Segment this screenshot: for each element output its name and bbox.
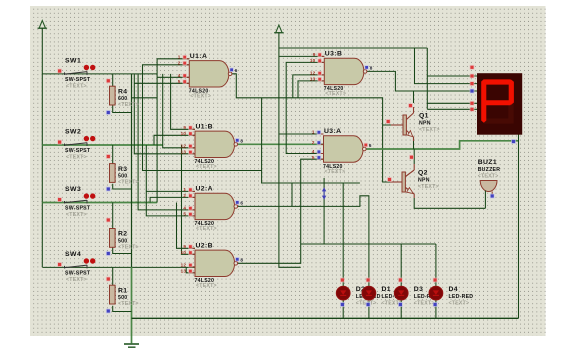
- U2:B pin 10: [189, 253, 195, 255]
- LED D3 (LED-RED): [394, 286, 408, 300]
- svg-text:SW-SPST: SW-SPST: [65, 77, 91, 83]
- wire: fan x=181.5 SW2 to U2:B pin10: [182, 145, 196, 254]
- wire: fan x=186.2 SW4 to U2:B pin13: [186, 267, 195, 272]
- svg-text:<TEXT>: <TEXT>: [325, 91, 346, 97]
- U1:B pin 9: [189, 128, 195, 130]
- wire: fan x=134.3 SW1 to U1:B pin13: [134, 74, 195, 154]
- svg-text:6: 6: [369, 143, 372, 148]
- svg-text:U3:B: U3:B: [325, 50, 342, 57]
- 4-input NAND gate U2:B (74LS20): [195, 250, 235, 276]
- origin marker (blue double arrow): [322, 187, 326, 200]
- U1:A output pin 6: [229, 68, 233, 72]
- wire: Q1 base tap: [383, 124, 401, 126]
- wire: Q2 emitter to buzzer: [414, 198, 485, 208]
- wire: fan x=176.5 SW3 to U2:B pin9: [177, 203, 196, 249]
- resistor R4: [110, 86, 116, 105]
- wire: rail2 top branch to 7seg column: [279, 47, 427, 49]
- 7seg input pin markers: [470, 65, 475, 70]
- svg-text:5: 5: [178, 79, 181, 84]
- resistor R3: [110, 164, 116, 183]
- wire: 7seg common column down to bus: [518, 135, 520, 319]
- wire: U2:A output to LED D1 with jog: [238, 196, 369, 318]
- svg-text:<TEXT>: <TEXT>: [118, 301, 139, 307]
- wire: buzzer left pin: [484, 191, 486, 209]
- wire: SW3 row to R2 and R2 to ground rail: [112, 203, 114, 229]
- svg-text:<TEXT>: <TEXT>: [419, 127, 440, 133]
- wire: row y=244 feeding LED D3 and LED D4: [301, 243, 436, 245]
- U2:A pin 1: [189, 190, 195, 192]
- svg-text:R4: R4: [118, 88, 128, 95]
- U1:A pin 5: [183, 82, 189, 84]
- R3 bottom pin marker: [106, 187, 111, 192]
- 4-input NAND gate U1:B (74LS20): [195, 131, 235, 157]
- SW3 pin state marker: [57, 197, 62, 202]
- svg-text:13: 13: [181, 150, 187, 155]
- U3:A pin 1: [318, 133, 324, 135]
- svg-text:LED-RED: LED-RED: [449, 294, 474, 300]
- svg-text:8: 8: [370, 66, 373, 71]
- U3:B pin 10: [318, 61, 324, 63]
- U1:A pin 1: [183, 58, 189, 60]
- svg-text:BUZZER: BUZZER: [478, 167, 501, 173]
- svg-text:<TEXT>: <TEXT>: [118, 102, 139, 108]
- U2:B pin 12: [189, 266, 195, 268]
- svg-text:10: 10: [181, 131, 187, 136]
- wire: 7seg pin2 feed: [415, 48, 479, 84]
- wire: ground rail x=131.5 upper: [131, 74, 133, 267]
- svg-text:2: 2: [183, 193, 186, 198]
- svg-text:NPN: NPN: [419, 121, 431, 127]
- wire: mid vertical x=261.6 and LED D2 feeder: [262, 98, 360, 183]
- U2:A output pin 6: [235, 200, 239, 204]
- resistor R2: [110, 229, 116, 248]
- wire: U3:A output line to 7seg common and bus riser: [366, 141, 518, 149]
- U2:B pin 13: [189, 272, 195, 274]
- svg-text:12: 12: [181, 263, 187, 268]
- svg-text:SW-SPST: SW-SPST: [65, 206, 91, 212]
- U1:B pin 10: [189, 134, 195, 136]
- Q1 base state marker: [386, 119, 391, 124]
- R1 bottom pin marker: [106, 309, 111, 314]
- D2 bottom pin marker: [340, 302, 345, 307]
- switch SW1: [64, 65, 95, 75]
- wire: Q1 emitter drop: [413, 137, 415, 149]
- wire: SW4 row to R1 and R1 to ground rail: [112, 267, 114, 285]
- power terminal arrow: [38, 21, 48, 29]
- R2 bottom pin marker: [106, 251, 111, 256]
- svg-text:<TEXT>: <TEXT>: [66, 212, 87, 218]
- svg-text:D4: D4: [449, 286, 459, 293]
- wire: SW1 row to R4 and R4 to ground rail: [112, 74, 114, 87]
- U1:B output pin 8: [235, 138, 239, 142]
- D4 bottom pin marker: [433, 302, 438, 307]
- power terminal arrow: [274, 25, 284, 33]
- svg-text:500: 500: [118, 238, 127, 244]
- wire: LED D4 drop: [435, 244, 437, 318]
- ground symbol: [124, 344, 139, 347]
- svg-text:SW3: SW3: [65, 186, 81, 193]
- svg-text:D1: D1: [382, 286, 392, 293]
- svg-text:U1:B: U1:B: [196, 123, 213, 130]
- 4-input NAND gate U3:A (74LS20): [324, 136, 364, 162]
- wire: 7seg feed column x=427.3: [426, 48, 428, 109]
- LED D4 (LED-RED): [429, 286, 443, 300]
- wire: SW3 jog to U2:A pin2: [150, 197, 195, 202]
- svg-text:12: 12: [310, 71, 316, 76]
- switch SW2: [64, 136, 95, 146]
- U2:A pin 5: [189, 215, 195, 217]
- svg-text:D3: D3: [414, 286, 424, 293]
- SW1 pin state marker: [57, 69, 62, 74]
- svg-text:<TEXT>: <TEXT>: [196, 164, 217, 170]
- LED D1 (LED-RED): [362, 286, 376, 300]
- wire: fan x=142.5 U1:A pin2 down to long mid wire: [143, 65, 262, 171]
- svg-text:1: 1: [178, 55, 181, 60]
- svg-text:13: 13: [181, 269, 187, 274]
- buzzer right pin stub: [491, 192, 493, 196]
- Q2 collector state marker: [409, 155, 414, 160]
- svg-text:SW-SPST: SW-SPST: [65, 148, 91, 154]
- svg-text:R3: R3: [118, 166, 128, 173]
- wire: fan tap to U1:A pin5: [134, 82, 189, 84]
- switch SW4: [64, 258, 95, 268]
- wire: +V rail 2 from arrow down to U2:B region: [279, 33, 301, 268]
- svg-text:U2:B: U2:B: [196, 242, 213, 249]
- transistor Q1 (NPN): [391, 107, 414, 141]
- wire: 7seg pin4 feed: [427, 102, 478, 104]
- svg-text:12: 12: [181, 144, 187, 149]
- svg-text:1: 1: [183, 187, 186, 192]
- svg-text:R1: R1: [118, 287, 128, 294]
- U1:B pin 12: [189, 147, 195, 149]
- U2:A pin 4: [189, 209, 195, 211]
- U2:A pin 2: [189, 196, 195, 198]
- svg-text:R2: R2: [118, 231, 128, 238]
- svg-text:500: 500: [118, 173, 127, 179]
- wire: vertical with origin marker below U3:A: [323, 178, 325, 244]
- svg-text:Q1: Q1: [419, 113, 429, 120]
- svg-text:SW-SPST: SW-SPST: [65, 271, 91, 277]
- svg-text:4: 4: [312, 149, 315, 154]
- svg-text:SW1: SW1: [65, 58, 81, 65]
- U1:A pin 2: [183, 64, 189, 66]
- U1:B pin 13: [189, 153, 195, 155]
- wire: U3:B pin10 riser to U3:A pin4: [286, 62, 324, 153]
- svg-text:<TEXT>: <TEXT>: [118, 244, 139, 250]
- wire: fan x=170.6 SW1 to U1:B pin9: [171, 74, 195, 129]
- svg-text:<TEXT>: <TEXT>: [196, 283, 217, 289]
- R3 top pin marker: [106, 154, 111, 159]
- wire: mid vertical x=292: [291, 183, 293, 206]
- wire: U3:B pin13 from U1:A output line: [298, 81, 324, 98]
- wire: U1:A output down and across to Q2 base / Q1 base column: [232, 74, 401, 182]
- 7-segment display showing P: [477, 73, 522, 135]
- wire: U3:B output to 7seg pin3 with drop to Q1 collector: [367, 71, 479, 91]
- svg-text:5: 5: [312, 155, 315, 160]
- R4 bottom pin marker: [106, 110, 111, 115]
- svg-text:8: 8: [240, 258, 243, 263]
- wire: ground rail x=131.5 lower: [131, 267, 133, 344]
- svg-text:10: 10: [310, 58, 316, 63]
- U2:B pin 9: [189, 247, 195, 249]
- U3:B pin 9: [318, 55, 324, 57]
- wire: bottom ground bus: [132, 317, 519, 319]
- svg-text:5: 5: [183, 212, 186, 217]
- wire: left +V rail from arrow down to SW4 row: [41, 28, 43, 267]
- wire: SW4 row into U2:B pin 12: [42, 266, 195, 268]
- D3 bottom pin marker: [398, 302, 403, 307]
- svg-text:4: 4: [183, 206, 186, 211]
- wire: fan x=162.7 SW1 to U1:B pin12: [163, 74, 195, 148]
- R4 top pin marker: [106, 78, 111, 83]
- svg-text:<TEXT>: <TEXT>: [414, 301, 435, 307]
- switch SW3: [64, 193, 95, 203]
- U3:A pin 2: [318, 143, 324, 145]
- U3:A pin 4: [318, 153, 324, 155]
- svg-text:1: 1: [312, 130, 315, 135]
- Q1 collector state marker: [408, 103, 413, 108]
- svg-text:9: 9: [183, 125, 186, 130]
- svg-text:<TEXT>: <TEXT>: [66, 83, 87, 89]
- svg-text:2: 2: [178, 61, 181, 66]
- D4 top pin marker: [433, 278, 438, 283]
- svg-text:4: 4: [178, 73, 181, 78]
- wire: U3:B pin12 from U1:A output line: [293, 75, 325, 98]
- svg-text:500: 500: [118, 295, 127, 301]
- svg-text:SW4: SW4: [65, 251, 81, 258]
- wire: fan x=138.1 SW1 to U2:A pin4: [138, 74, 195, 210]
- buzzer right pin marker: [490, 194, 495, 199]
- R1 top pin marker: [106, 277, 111, 282]
- wire: 7seg pin1 feed: [427, 75, 478, 77]
- svg-text:9: 9: [183, 244, 186, 249]
- svg-text:NPN: NPN: [418, 178, 430, 184]
- svg-text:U1:A: U1:A: [190, 53, 207, 60]
- U3:A output pin 6: [364, 143, 368, 147]
- wire: SW2 row: [42, 144, 163, 146]
- 4-input NAND gate U3:B (74LS20): [324, 58, 364, 84]
- wire: rail2 to U3:A pin1: [279, 133, 324, 135]
- D2 top pin marker: [340, 278, 345, 283]
- svg-text:<TEXT>: <TEXT>: [118, 180, 139, 186]
- wire: rail2 to U3:B pin9: [279, 55, 324, 57]
- U1:A pin 4: [183, 76, 189, 78]
- wire: LED D3 drop: [400, 244, 402, 318]
- SW2 pin state marker: [57, 140, 62, 145]
- wire: LED D2 drop: [342, 183, 344, 318]
- wire: stub ground rail to fan: [132, 97, 158, 99]
- wire: U1:B output to U3:A pin2: [238, 143, 324, 145]
- D1 top pin marker: [366, 278, 371, 283]
- wire: fan tap to U1:A pin4: [157, 76, 189, 78]
- svg-text:<TEXT>: <TEXT>: [196, 226, 217, 232]
- D3 top pin marker: [398, 278, 403, 283]
- svg-text:<TEXT>: <TEXT>: [66, 154, 87, 160]
- D1 bottom pin marker: [366, 302, 371, 307]
- svg-text:6: 6: [235, 68, 238, 73]
- svg-text:BUZ1: BUZ1: [478, 159, 497, 166]
- wire: SW1 row: [42, 73, 157, 75]
- U3:B pin 12: [318, 74, 324, 76]
- wire: fan x=146.3 SW2 to U2:A pin1 and pin5: [146, 145, 195, 216]
- wire: U2:B output to riser x=300.7: [238, 159, 324, 263]
- U3:A pin 5: [318, 158, 324, 160]
- wire: fan x=154 SW2 to U1:B pin10: [154, 135, 195, 145]
- resistor R1: [110, 285, 116, 304]
- Q2 base state marker: [387, 177, 392, 182]
- U3:B output pin 8: [364, 65, 368, 69]
- svg-text:Q2: Q2: [418, 170, 428, 177]
- svg-text:SW2: SW2: [65, 129, 81, 136]
- wire: SW3 row: [42, 202, 157, 204]
- SW4 pin state marker: [57, 262, 62, 267]
- svg-text:2: 2: [312, 140, 315, 145]
- svg-text:9: 9: [313, 52, 316, 57]
- svg-text:<TEXT>: <TEXT>: [478, 173, 499, 179]
- svg-text:U3:A: U3:A: [324, 128, 341, 135]
- svg-text:<TEXT>: <TEXT>: [190, 94, 211, 100]
- svg-text:U2:A: U2:A: [196, 185, 213, 192]
- svg-text:10: 10: [181, 250, 187, 255]
- 7seg common pin marker: [511, 139, 516, 144]
- wire: SW2 row to R3 and R3 to ground rail: [112, 145, 114, 164]
- U3:B pin 13: [318, 80, 324, 82]
- wire: 7seg pin5 feed: [427, 108, 478, 110]
- 4-input NAND gate U2:A (74LS20): [195, 193, 235, 219]
- svg-text:6: 6: [240, 201, 243, 206]
- svg-text:<TEXT>: <TEXT>: [449, 301, 470, 307]
- LED D2 (LED-RED): [336, 286, 350, 300]
- wire: Q2 collector riser: [413, 149, 415, 164]
- buzzer BUZ1: [480, 181, 497, 192]
- U2:B output pin 8: [235, 257, 239, 261]
- svg-text:<TEXT>: <TEXT>: [66, 277, 87, 283]
- svg-text:8: 8: [240, 139, 243, 144]
- svg-text:<TEXT>: <TEXT>: [418, 184, 439, 190]
- R2 top pin marker: [106, 218, 111, 223]
- svg-text:13: 13: [310, 77, 316, 82]
- 4-input NAND gate U1:A (74LS20): [189, 61, 229, 87]
- svg-text:<TEXT>: <TEXT>: [325, 169, 346, 175]
- wire: fan x=157.1 U1:A pin1 down to SW3 row: [157, 59, 189, 203]
- svg-text:600: 600: [118, 96, 127, 102]
- transistor Q2 (NPN): [390, 164, 414, 198]
